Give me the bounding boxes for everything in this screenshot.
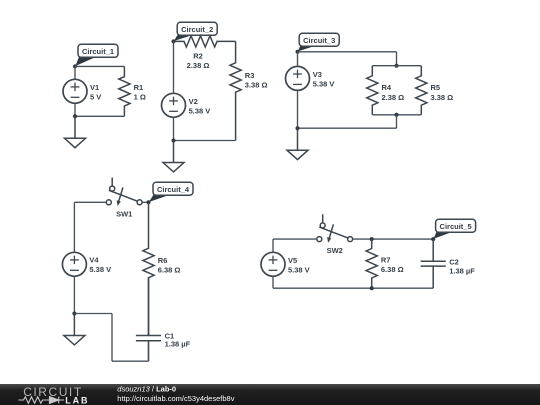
wire bottom rail circuit 1 [75,115,124,117]
capacitor C2 [421,239,446,288]
svg-text:Circuit_2: Circuit_2 [181,25,213,34]
svg-text:6.38 Ω: 6.38 Ω [158,266,181,275]
label R1 1 Ω [134,83,146,102]
wire riser down segment [111,314,113,362]
node top-left junction circuit 2 [172,39,176,43]
svg-text:R5: R5 [431,83,441,92]
voltage source V1 [63,79,87,103]
label V1 5 V [90,83,101,102]
wire SW1 right lead [143,201,149,203]
wire parallel bottom drop [396,115,398,128]
label V3 5.38 V [313,70,335,89]
node parallel bottom junction [395,113,399,117]
node top-right junction circuit 5 [431,237,435,241]
label Circuit_5 [434,219,476,238]
svg-text:V4: V4 [89,256,99,265]
label R6 6.38 Ω [158,256,181,275]
svg-text:Circuit_4: Circuit_4 [157,185,190,194]
resistor R5 [416,66,427,115]
node SW1/R6 junction [147,200,151,204]
svg-text:dsouzn13 / Lab-0: dsouzn13 / Lab-0 [117,385,176,394]
switch SW2 [317,214,353,243]
label Circuit_4 [149,182,193,202]
label Circuit_2 [174,22,217,41]
wire V4 bottom lead [73,276,75,313]
svg-text:1.38 µF: 1.38 µF [165,339,191,348]
svg-text:http://circuitlab.com/c53y4des: http://circuitlab.com/c53y4desefb8v [117,394,234,403]
label R3 3.38 Ω [245,71,268,90]
label R4 2.38 Ω [382,83,405,102]
wire bottom rail circuit 3 [298,127,397,129]
ground circuit 1 [65,116,86,147]
svg-text:SW1: SW1 [116,209,132,218]
node bottom junction circuit 2 [172,139,176,143]
resistor R4 [367,66,378,115]
svg-text:SW2: SW2 [327,246,343,255]
svg-text:Circuit_1: Circuit_1 [82,47,114,56]
node bottom junction circuit 5 [370,286,374,290]
wire top rail drop to parallel pair [396,52,398,66]
svg-text:V3: V3 [313,70,322,79]
svg-text:R4: R4 [382,83,392,92]
svg-text:V2: V2 [189,97,198,106]
wire V1 bottom lead [74,103,76,116]
label Circuit_3 [298,33,339,51]
svg-text:LAB: LAB [65,396,89,405]
svg-text:V1: V1 [90,83,99,92]
wire bottom rail circuit 2 [174,140,236,142]
label V4 5.38 V [89,256,111,275]
wire V5 bottom lead [272,276,274,288]
svg-text:1 Ω: 1 Ω [134,93,146,102]
capacitor C1 [136,278,161,361]
svg-text:5.38 V: 5.38 V [313,80,335,89]
label V2 5.38 V [189,97,211,116]
switch SW1 [106,178,142,207]
wire parallel top bar [372,65,421,67]
ground circuit 2 [163,141,184,172]
wire V3 top lead [297,52,299,67]
resistor R3 [230,41,241,140]
ground circuit 4 [64,314,85,345]
label R7 6.38 Ω [381,256,404,275]
wire V1 top lead [74,66,76,79]
wire parallel bottom bar [372,114,421,116]
voltage source V2 [162,93,186,117]
resistor R1 [119,66,130,116]
node SW2/R7 junction [370,237,374,241]
svg-text:V5: V5 [288,256,297,265]
svg-text:R1: R1 [134,83,144,92]
svg-text:5.38 V: 5.38 V [288,266,310,275]
node top-left junction circuit 3 [296,50,300,54]
label C1 1.38 µF [165,332,191,349]
voltage source V3 [286,66,310,90]
label C2 1.38 µF [449,258,475,276]
svg-text:5.38 V: 5.38 V [89,265,111,274]
svg-text:3.38 Ω: 3.38 Ω [245,80,268,89]
resistor R6 [143,202,154,335]
voltage source V4 [62,252,86,276]
wire V3 bottom lead [297,90,299,128]
voltage source V5 [261,252,285,276]
wire top rail circuit 1 [75,65,124,67]
logo resistor-diode glyph [19,397,65,404]
resistor R7 [366,239,377,288]
wire SW2 left lead [273,238,317,240]
svg-text:5.38 V: 5.38 V [189,107,211,116]
wire bottom junction to riser [74,313,112,315]
node bottom-left junction circuit 4 [72,312,76,316]
wire left column circuit 4 [73,202,75,252]
svg-text:5 V: 5 V [90,93,101,102]
svg-text:C2: C2 [449,258,459,267]
wire C1 bottom lead up [148,341,150,361]
svg-text:R2: R2 [193,52,203,61]
node parallel top junction [395,64,399,68]
node bottom junction circuit 1 [73,114,77,118]
svg-text:R6: R6 [158,256,168,265]
svg-text:1.38 µF: 1.38 µF [449,266,475,275]
svg-text:2.38 Ω: 2.38 Ω [382,93,405,102]
wire top rail circuit 3 [298,51,397,53]
node top-left junction (V1+/R1) [73,64,77,68]
wire V2 top lead [173,41,175,93]
svg-text:3.38 Ω: 3.38 Ω [431,93,454,102]
label R5 3.38 Ω [431,83,454,102]
ground circuit 3 [287,128,308,159]
svg-text:R3: R3 [245,71,255,80]
footer bar [0,384,540,405]
svg-text:Circuit_3: Circuit_3 [303,36,335,45]
svg-text:2.38 Ω: 2.38 Ω [187,61,210,70]
node bottom junction circuit 3 [296,126,300,130]
svg-text:Circuit_5: Circuit_5 [440,222,472,231]
wire left column circuit 5 [272,239,274,252]
svg-text:6.38 Ω: 6.38 Ω [381,265,404,274]
label V5 5.38 V [288,256,310,275]
wire V2 bottom lead [173,117,175,140]
label R2 2.38 Ω [187,52,210,70]
wire bottom rail circuit 5 [273,287,433,289]
svg-text:R7: R7 [381,256,391,265]
wire SW2 right rail [353,238,433,240]
wire bottom run to C1 [112,360,149,362]
wire SW1 left lead [74,201,106,203]
label Circuit_1 [75,44,118,66]
resistor R2 [174,36,236,47]
